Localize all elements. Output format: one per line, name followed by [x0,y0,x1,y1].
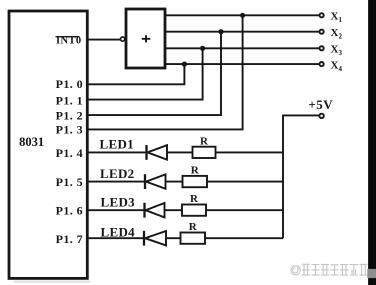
svg-text:X4: X4 [331,59,343,73]
svg-text:P1. 3: P1. 3 [56,123,83,137]
svg-text:LED2: LED2 [100,166,134,181]
svg-text:R: R [191,165,200,177]
svg-text:P1. 5: P1. 5 [56,175,83,189]
svg-text:R: R [200,135,209,147]
svg-text:INT0: INT0 [56,36,82,47]
svg-text:P1. 4: P1. 4 [56,146,83,160]
svg-text:R: R [190,193,199,205]
svg-text:P1. 1: P1. 1 [56,93,83,107]
svg-text:X3: X3 [331,44,343,58]
svg-text:8031: 8031 [19,135,44,149]
svg-text:LED4: LED4 [101,224,136,239]
svg-text:P1. 0: P1. 0 [56,77,83,91]
svg-text:LED1: LED1 [100,137,134,152]
svg-text:LED3: LED3 [101,194,136,209]
svg-text:X2: X2 [331,27,343,41]
svg-text:P1. 2: P1. 2 [56,108,83,122]
svg-text:R: R [189,221,198,233]
svg-text:P1. 6: P1. 6 [56,204,83,218]
svg-text:P1. 7: P1. 7 [56,232,83,246]
svg-text:+5V: +5V [308,97,333,112]
svg-text:X1: X1 [331,11,343,25]
